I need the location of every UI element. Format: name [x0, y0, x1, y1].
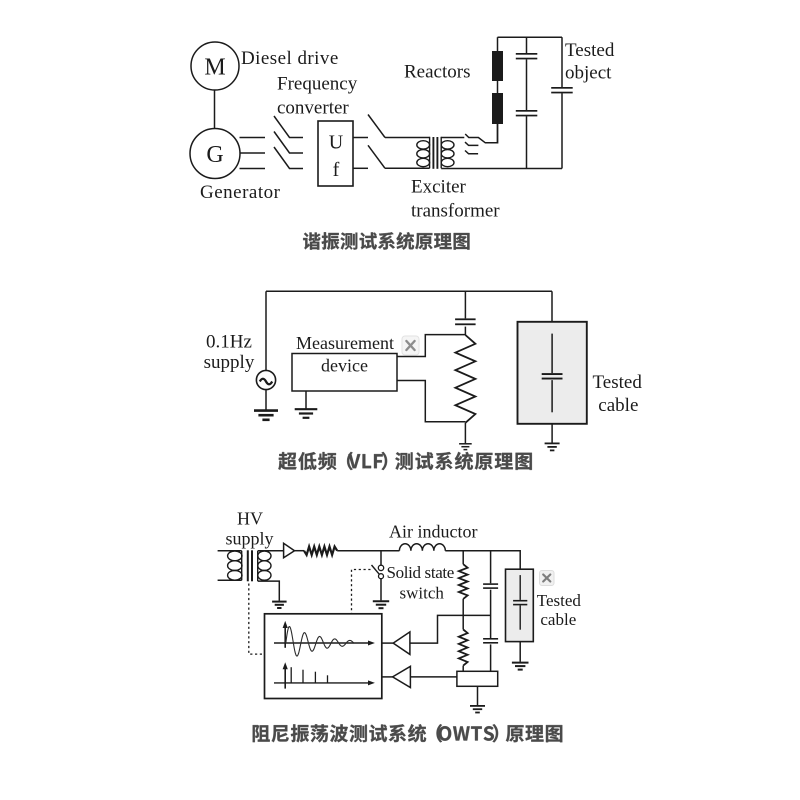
wire AC source to ground — [265, 390, 267, 411]
svg-text:Measurement: Measurement — [296, 333, 394, 353]
scope upper time axis — [274, 642, 372, 644]
exciter transformer secondary winding — [441, 137, 454, 169]
shaft wire M to G — [214, 90, 216, 129]
switch blade 3 (generator side) — [274, 147, 303, 169]
wire rail to AC source — [265, 291, 267, 370]
HV switch phase 2 — [465, 142, 478, 145]
motor circle M — [191, 42, 239, 90]
phase wire 2 from generator — [240, 152, 266, 154]
tested object capacitor — [551, 87, 573, 93]
HV transformer secondary winding — [258, 551, 271, 581]
wire from converter row 2 — [353, 167, 368, 169]
exciter transformer primary winding — [417, 137, 430, 169]
scope upper voltage axis — [284, 624, 286, 648]
ground below VLF resistor — [459, 444, 472, 450]
measurement wire B (lower) — [397, 381, 465, 422]
switch blade 1 (generator side) — [274, 116, 303, 138]
impulse train — [291, 667, 327, 683]
dotted control line to switch — [352, 570, 371, 614]
measurement device box — [292, 354, 397, 392]
OWTS resistor column R1 — [462, 551, 464, 565]
HV transformer core — [248, 550, 252, 581]
svg-text:G: G — [206, 142, 223, 168]
scope lower voltage axis — [284, 665, 286, 688]
capacitor column (OWTS divider) — [490, 551, 492, 584]
ground below tested cable (VLF) — [545, 443, 560, 450]
svg-text:Tested: Tested — [537, 591, 582, 610]
watermark icon 2 — [540, 571, 555, 586]
wire secondary bottom to ground — [258, 581, 280, 601]
ground below pulse box — [470, 706, 485, 713]
svg-text:0.1Hz: 0.1Hz — [206, 332, 252, 353]
solid state switch column — [380, 551, 382, 566]
measurement wire A (upper) — [397, 335, 465, 357]
VLF resistor (zigzag) — [455, 335, 475, 423]
svg-text:U: U — [329, 132, 344, 154]
wire transformer secondary bottom to tested object — [441, 168, 562, 170]
wire cable box to ground — [551, 424, 553, 443]
phase wire 1 from generator — [240, 137, 266, 139]
amplifier 1 (voltage) — [382, 642, 393, 644]
svg-text:Frequency: Frequency — [277, 74, 358, 95]
damping resistor (horizontal zigzag) — [304, 547, 337, 555]
OWTS capacitor C1 — [483, 583, 498, 589]
tested cable box (OWTS) — [506, 569, 534, 641]
reactor 1 (black bar) — [492, 51, 503, 81]
svg-text:supply: supply — [225, 529, 273, 549]
svg-text:cable: cable — [598, 395, 638, 416]
HV transformer primary leads — [218, 551, 242, 581]
switch blade row 1 (converter side) — [368, 115, 385, 138]
damped oscillation waveform — [286, 627, 355, 656]
tested object column wire — [561, 37, 563, 168]
switch blade — [372, 565, 380, 574]
HV switch phase 1 with wire to reactors — [465, 124, 497, 143]
ground below tested cable (OWTS) — [512, 663, 529, 670]
svg-text:Tested: Tested — [593, 372, 643, 393]
air inductor (4 humps) — [399, 544, 445, 551]
caption: VLF test system schematic — [278, 452, 532, 470]
exciter transformer core — [433, 137, 437, 169]
main HV wire — [337, 550, 399, 552]
frequency converter box U f — [318, 121, 353, 186]
caption: resonance test system schematic — [303, 232, 469, 250]
ground below HV transformer — [272, 602, 287, 608]
wire amplifier 2 to pulse box — [410, 676, 457, 678]
ground below measurement device — [295, 409, 318, 418]
VLF top rail — [266, 290, 552, 292]
scope lower time axis — [274, 682, 372, 684]
divider column: wire from rail — [464, 291, 466, 318]
svg-text:Diesel drive: Diesel drive — [241, 48, 339, 69]
svg-text:converter: converter — [277, 98, 349, 119]
svg-text:object: object — [565, 63, 612, 84]
switch blade row 2 (converter side) — [368, 145, 385, 168]
cable capacitor inside box — [551, 334, 553, 374]
pulse shaping box — [457, 671, 498, 686]
reactor 2 (black bar) — [492, 93, 503, 124]
HV switch phase 3 — [465, 151, 478, 154]
top rail of resonance circuit — [498, 36, 563, 38]
divider capacitor C2 — [516, 110, 538, 116]
OWTS resistor R2 — [459, 630, 468, 666]
watermark icon 1 — [402, 336, 419, 355]
wire secondary top to diode — [258, 550, 284, 552]
svg-text:transformer: transformer — [411, 201, 500, 222]
svg-text:Air inductor: Air inductor — [389, 522, 477, 542]
cable capacitance (OWTS) — [513, 600, 527, 605]
ground below AC source — [254, 411, 278, 420]
amplifier 2 (current) — [382, 676, 393, 678]
oscilloscope box — [265, 614, 382, 699]
main wire inductor to cable — [445, 551, 520, 570]
dotted line from HV transformer to oscilloscope — [249, 584, 264, 655]
svg-text:cable: cable — [540, 610, 576, 629]
wire from converter row 1 — [353, 137, 368, 139]
wire transformer secondary top — [441, 137, 464, 139]
tested cable box (VLF) — [518, 322, 587, 424]
VLF capacitor — [455, 318, 476, 325]
cable capacitance plates — [542, 373, 563, 379]
OWTS capacitor C2 — [483, 638, 498, 644]
svg-text:Exciter: Exciter — [411, 177, 467, 198]
svg-text:Solid state: Solid state — [387, 563, 454, 582]
svg-text:HV: HV — [237, 509, 263, 529]
reactor column wire — [497, 37, 499, 143]
switch blade 2 (generator side) — [274, 132, 303, 154]
divider capacitor column wire — [526, 37, 528, 168]
svg-text:f: f — [333, 159, 340, 181]
ground below solid state switch — [373, 601, 389, 608]
svg-text:Generator: Generator — [200, 182, 281, 203]
wire measurement box to ground — [305, 391, 307, 409]
HV transformer primary winding — [228, 551, 242, 581]
svg-text:supply: supply — [204, 352, 255, 373]
AC source 0.1Hz (circle with sine) — [256, 370, 275, 389]
wire to exciter transformer row 2 — [385, 167, 430, 169]
wire diode to damping resistor — [295, 550, 305, 552]
generator circle G — [190, 129, 240, 179]
wire to exciter transformer row 1 — [385, 137, 430, 139]
caption: OWTS test system schematic — [253, 724, 563, 742]
wire from amplifier 1 to divider junction — [410, 615, 491, 643]
svg-text:M: M — [204, 55, 225, 81]
svg-text:switch: switch — [400, 584, 445, 603]
diode (triangle) — [284, 543, 295, 557]
svg-text:device: device — [321, 356, 368, 376]
phase wire 3 from generator — [240, 168, 266, 170]
wire rail to tested cable — [551, 291, 553, 322]
svg-text:Reactors: Reactors — [404, 62, 470, 83]
divider capacitor C1 — [516, 53, 538, 59]
svg-text:Tested: Tested — [565, 40, 615, 61]
